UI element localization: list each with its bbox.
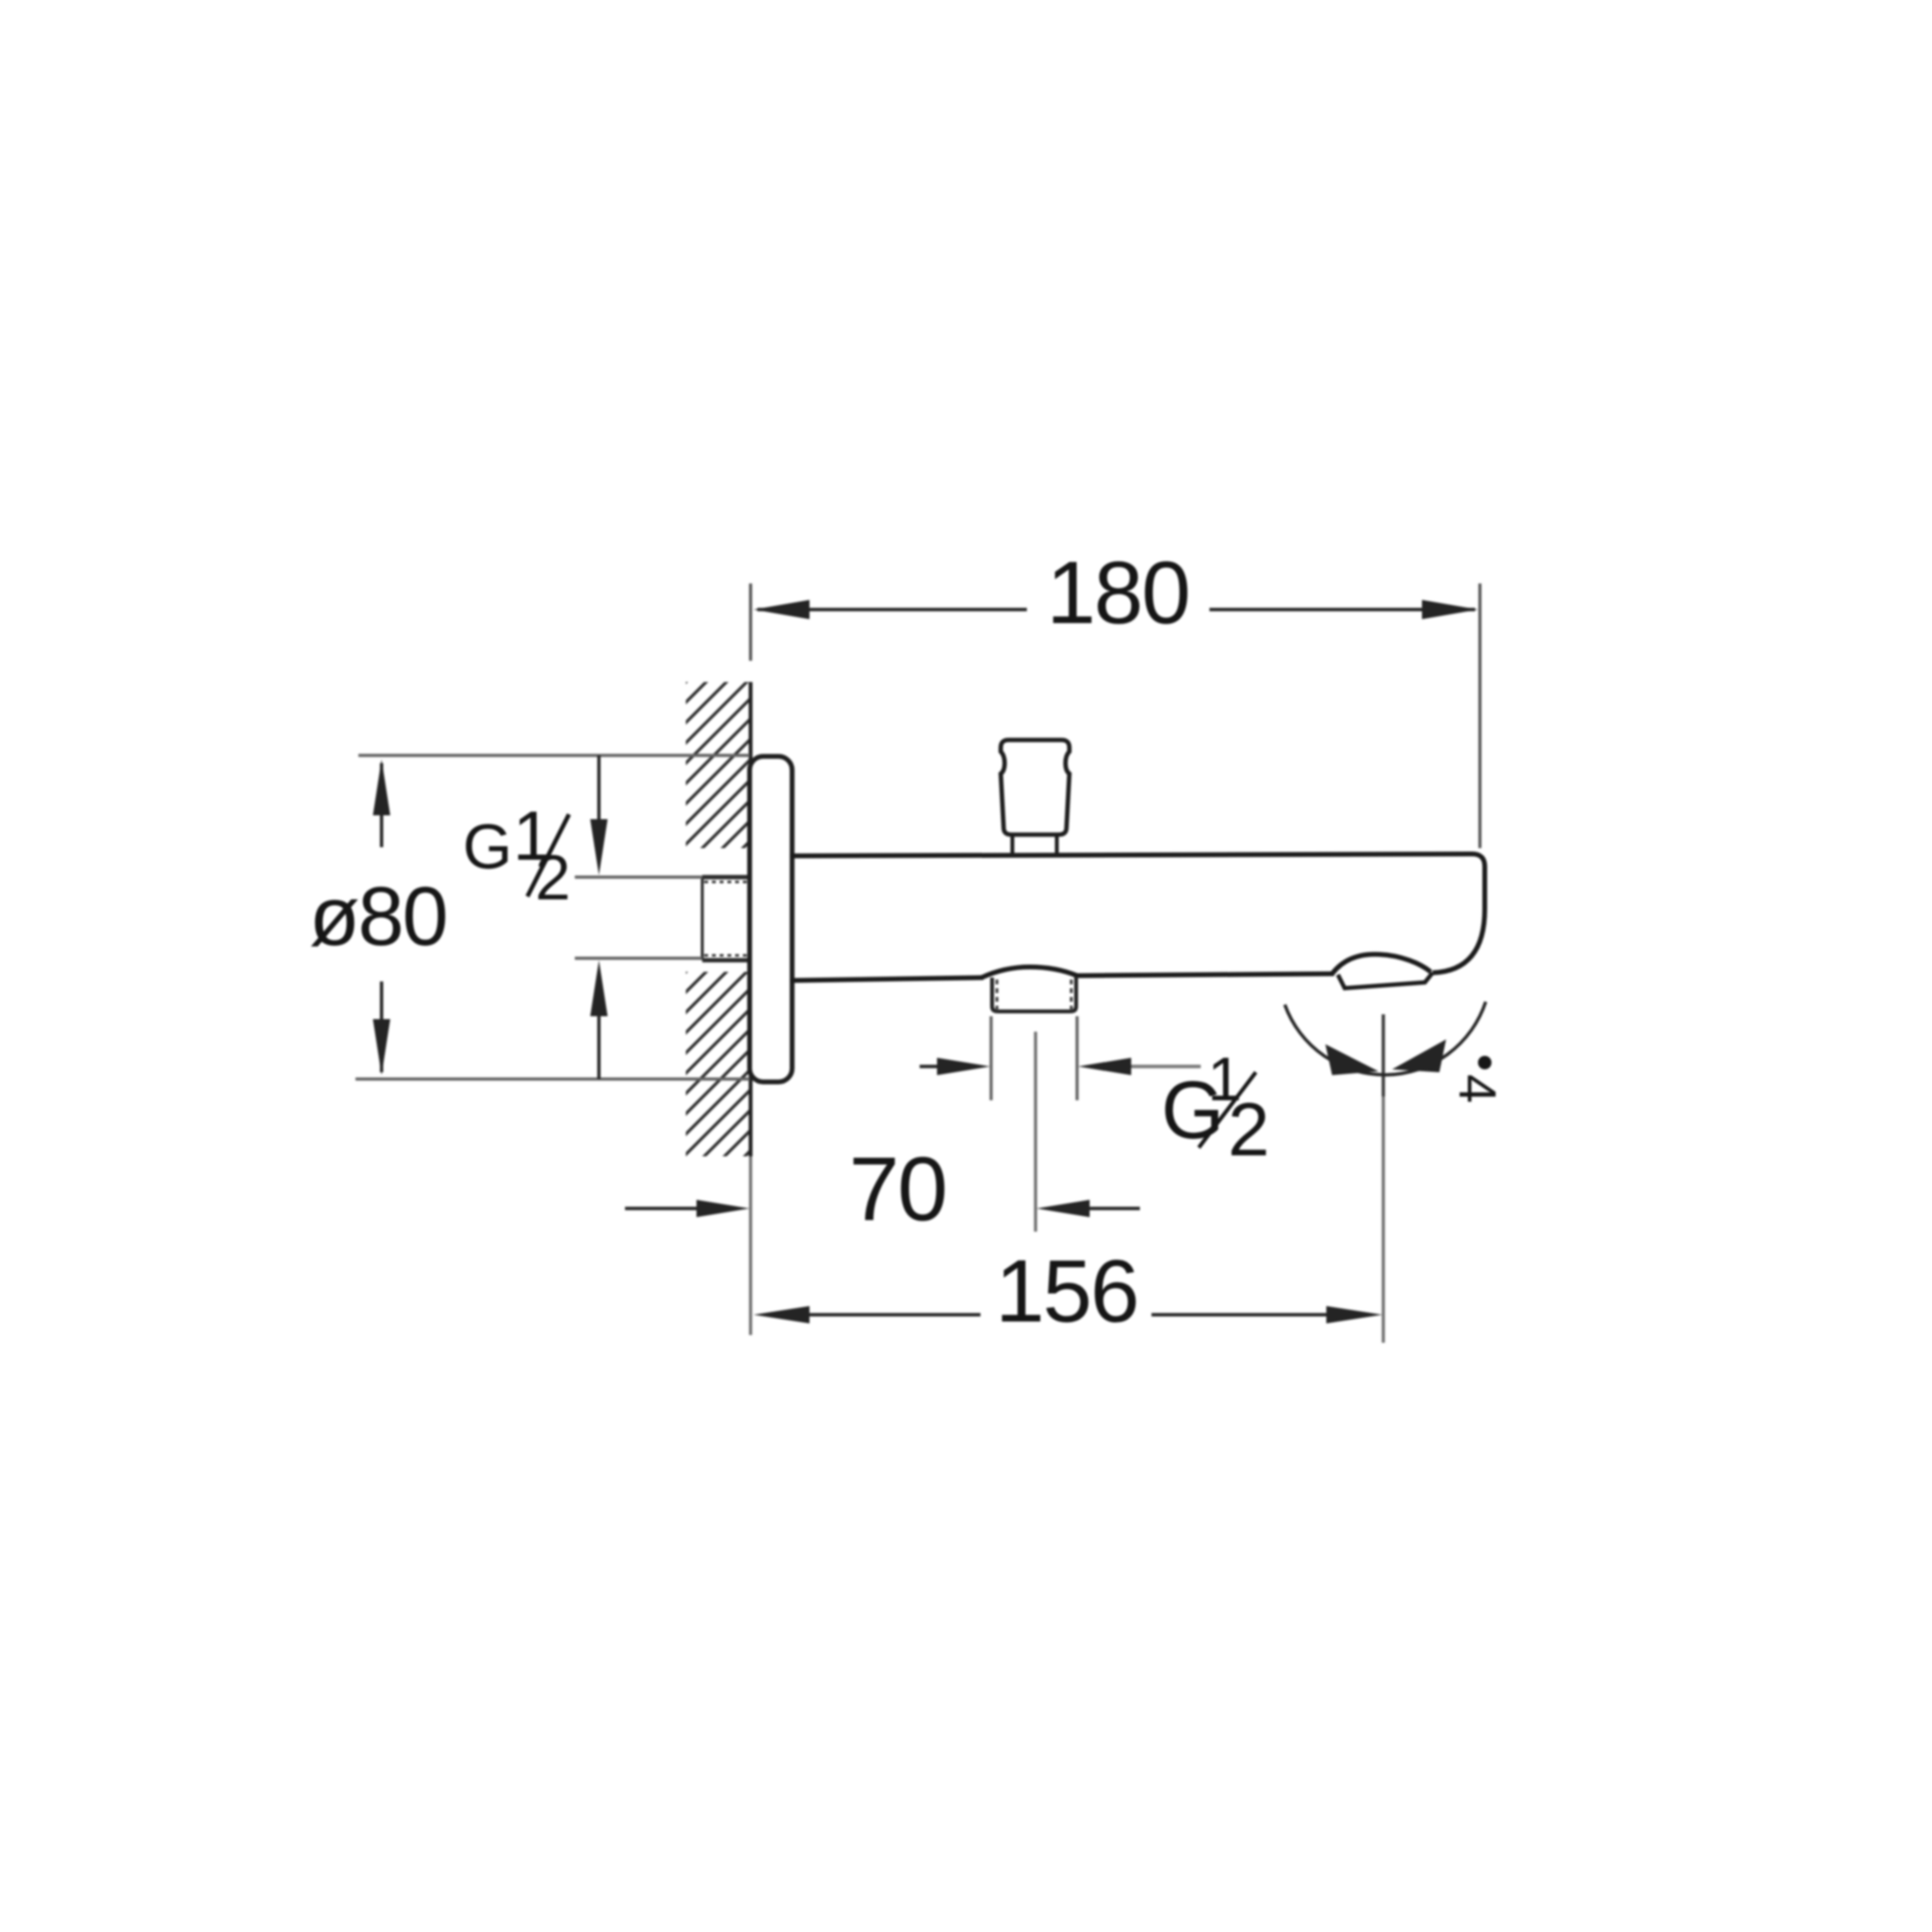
- knob neck: [1012, 835, 1057, 856]
- wall hatching top block: [676, 605, 763, 996]
- aerator bump at tip: [1332, 954, 1431, 974]
- diverter knob: [1001, 740, 1069, 835]
- svg-text:70: 70: [849, 1138, 947, 1239]
- wall face line: [749, 682, 753, 1156]
- svg-text:ø80: ø80: [309, 870, 446, 963]
- G1/2 top dim extension lines: [575, 875, 702, 878]
- bottom line left of nut: [790, 978, 983, 980]
- dimension 70: [625, 1200, 1140, 1217]
- svg-text:180: 180: [1046, 544, 1189, 642]
- G1/2 bottom label: [1161, 1044, 1269, 1172]
- 4 deg arc arrowheads: [1325, 1044, 1378, 1075]
- svg-text:2: 2: [535, 841, 571, 913]
- G1/2 top dimension vertical line with arrows: [590, 755, 608, 1079]
- svg-text:4: 4: [1448, 1074, 1506, 1103]
- 180 left extension line: [749, 583, 752, 661]
- o80 bottom extension line: [355, 1077, 750, 1080]
- 70 center extension line: [1034, 1032, 1037, 1232]
- nut body under spout: [992, 977, 1076, 1011]
- o80 top extension line: [358, 753, 750, 756]
- svg-text:2: 2: [1228, 1087, 1269, 1172]
- rear G1/2 pipe behind wall: [702, 877, 751, 960]
- G1/2 top label: [463, 798, 571, 913]
- flange (o80): [750, 756, 792, 1082]
- 180 right extension line: [1478, 583, 1481, 848]
- G1/2 bottom dimension arrows: [920, 1058, 1201, 1075]
- G1/2 bottom dim extension lines: [989, 1016, 992, 1100]
- nut bump over bottom line: [981, 967, 1077, 978]
- wall face extension (below, to 156 dim): [749, 1156, 752, 1335]
- dimension o80 vertical: [373, 759, 390, 1075]
- wall hatching bottom block: [676, 895, 763, 1306]
- svg-text:156: 156: [995, 1242, 1138, 1341]
- nut thread ticks: [996, 980, 999, 1010]
- dimension 156: [753, 1306, 1382, 1323]
- dimension 180: [753, 600, 1478, 619]
- svg-text:G: G: [463, 810, 512, 882]
- 4 deg arc: [1285, 1002, 1486, 1075]
- 156 right extension line / 4deg tip line: [1381, 1014, 1384, 1096]
- top line: [790, 854, 1485, 973]
- aerator ring below: [1338, 973, 1433, 988]
- bottom line right of nut: [1075, 974, 1334, 976]
